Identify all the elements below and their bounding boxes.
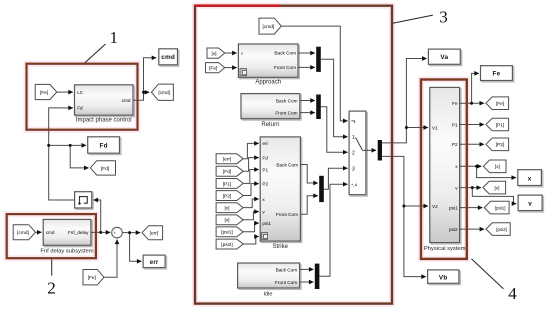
svg-text:Return: Return <box>261 122 279 128</box>
svg-text:2: 2 <box>352 150 355 156</box>
svg-text:psi2: psi2 <box>449 227 458 232</box>
svg-text:LC: LC <box>77 90 84 95</box>
wire psi1 output to goto <box>460 207 483 209</box>
svg-text:Back Com: Back Com <box>276 267 298 272</box>
subsystem Approach <box>238 44 299 86</box>
demux bar <box>378 140 382 161</box>
svg-text:err: err <box>262 141 268 146</box>
svg-text:Back Com: Back Com <box>276 162 298 167</box>
wire [cmd] to switch control input <box>281 26 347 121</box>
wire idle front com to mux <box>300 281 314 283</box>
svg-text:[Fe]: [Fe] <box>88 275 96 281</box>
svg-text:[P1]: [P1] <box>223 181 232 187</box>
svg-text:Va: Va <box>440 54 448 61</box>
memory block M1 <box>75 192 94 210</box>
svg-text:Back Com: Back Com <box>274 51 296 56</box>
mux idle <box>315 264 320 289</box>
svg-text:2: 2 <box>47 278 56 297</box>
svg-text:Fnf_delay: Fnf_delay <box>68 230 89 235</box>
junction Fd net B <box>69 144 72 147</box>
svg-text:[x]: [x] <box>224 206 229 212</box>
wire sum output to goto [err] <box>122 232 140 234</box>
from tag [psi1] (strike input) <box>216 227 243 237</box>
display block cmd <box>159 49 179 66</box>
from tag [Fe] (error feedback) <box>83 270 104 285</box>
wire [Fe] to approach <box>225 67 237 69</box>
wire memory output to Fd net <box>49 145 86 200</box>
wire v output to goto <box>460 187 481 189</box>
svg-text:Fe: Fe <box>452 101 458 106</box>
annotation box glow 2 <box>7 214 96 258</box>
svg-text:[Fe]: [Fe] <box>209 66 217 72</box>
annotation label 1 <box>83 28 118 64</box>
wire idle back com to mux <box>300 268 314 270</box>
svg-text:cmd: cmd <box>46 230 55 235</box>
annotation box glow 1 <box>27 64 138 130</box>
wire branch V2 input <box>404 205 428 207</box>
wire cmd output to junction <box>133 58 156 101</box>
wire [psi2] to strike bottom port <box>243 237 259 245</box>
mux strike <box>319 176 324 202</box>
svg-text:[P2]: [P2] <box>496 142 505 148</box>
svg-text:Back Com: Back Com <box>276 98 298 103</box>
annotation box 2 <box>7 214 96 258</box>
subsystem Physical system <box>424 87 466 251</box>
svg-text:Strike: Strike <box>273 244 289 250</box>
goto tag [psi1] <box>484 201 509 214</box>
junction V2 <box>402 205 405 208</box>
wire demux V1 to physical system and Va <box>382 59 427 143</box>
svg-text:V1: V1 <box>432 125 438 130</box>
junction Fd net A <box>47 144 50 147</box>
svg-text:3: 3 <box>352 166 355 172</box>
goto tag [cmd] (top left) <box>151 84 173 100</box>
svg-text:Fd: Fd <box>99 143 107 150</box>
wire approach mux to switch input 1 <box>321 59 348 136</box>
wire P1 output to goto <box>460 124 484 126</box>
from tag [x] (strike input) <box>216 203 243 213</box>
goto tag [P1] <box>486 118 509 131</box>
goto tag [Fe] (right) <box>486 97 509 110</box>
display block Va <box>428 49 461 66</box>
svg-text:[Fd]: [Fd] <box>223 169 231 175</box>
svg-text:[cmd]: [cmd] <box>158 90 170 96</box>
svg-text:err: err <box>150 260 159 266</box>
svg-text:[psi2]: [psi2] <box>496 227 507 232</box>
wire [cmd] to Fnf delay <box>36 231 42 233</box>
from tag [x] (approach input) <box>207 48 225 58</box>
svg-text:[P1]: [P1] <box>496 122 505 128</box>
goto tag [Fd] <box>90 161 115 175</box>
wire approach front com to mux <box>298 66 315 68</box>
wire [Fe] to LC input <box>57 91 73 93</box>
from tag [P1] (strike input) <box>216 179 243 189</box>
svg-text:[Fe]: [Fe] <box>40 90 48 96</box>
wire Fe output to goto <box>460 102 484 104</box>
wire strike mux to switch input 3 <box>324 168 348 189</box>
annotation box 1 <box>27 64 138 130</box>
wire [P2] to strike P2 <box>243 184 259 196</box>
annotation box 4 <box>421 80 467 259</box>
svg-text:[err]: [err] <box>150 231 159 237</box>
wire [psi1] to strike psi1 <box>243 223 259 232</box>
svg-text:P1: P1 <box>262 167 268 172</box>
svg-text:P1: P1 <box>452 122 458 127</box>
wire [v] to strike v <box>243 212 259 220</box>
display block Fd <box>88 137 121 155</box>
svg-text:[psi1]: [psi1] <box>495 206 506 211</box>
multiport switch SW1 <box>349 111 367 196</box>
display block err <box>143 255 166 269</box>
wire return back com to mux <box>300 100 315 102</box>
goto tag [x] (right) <box>483 160 506 173</box>
svg-text:[P2]: [P2] <box>223 193 232 199</box>
svg-text:Fd: Fd <box>77 106 83 111</box>
wire branch to x display <box>477 166 516 177</box>
junction x <box>475 165 478 168</box>
from tag [cmd] (delay input) <box>13 225 35 240</box>
display block v <box>518 195 543 212</box>
wire branch to Fe display <box>472 73 479 103</box>
goto tag [err] <box>142 226 163 240</box>
svg-text:Physical system: Physical system <box>424 246 466 252</box>
junction memory tap <box>99 231 102 234</box>
from tag [P2] (strike input) <box>216 191 243 201</box>
wire [x] to strike x <box>243 199 259 208</box>
svg-text:[psi2]: [psi2] <box>221 242 232 248</box>
wire memory input from Fnf output junction <box>94 200 101 232</box>
svg-text:[Fe]: [Fe] <box>496 101 504 107</box>
svg-text:psi1: psi1 <box>449 206 458 211</box>
wire P2 output to goto <box>460 143 484 145</box>
wire return front com to mux <box>300 112 315 114</box>
svg-text:[v]: [v] <box>494 186 499 192</box>
wire branch V1 input <box>406 127 428 129</box>
svg-text:v: v <box>528 201 532 208</box>
from tag [Fd] (strike input) <box>216 166 243 176</box>
wire switch output to demux <box>366 149 376 151</box>
sum junction S1 <box>112 227 123 239</box>
svg-text:*,4: *,4 <box>351 182 357 187</box>
from tag [psi2] (strike input) <box>216 239 243 249</box>
subsystem U1 Impact phase control <box>75 85 135 124</box>
from tag [v] (strike input) <box>216 215 243 225</box>
subsystem U2 Fnf delay subsystem <box>40 219 93 254</box>
from tag [err] (strike input) <box>216 154 243 164</box>
wire return mux to switch input 2 <box>321 107 348 153</box>
wire demux V2 to Vb <box>382 156 426 276</box>
wire strike front com to mux <box>300 196 317 215</box>
display block x <box>518 170 543 187</box>
subsystem Strike <box>260 137 302 250</box>
svg-text:Impact phase control: Impact phase control <box>76 118 132 124</box>
wire [x] to approach <box>225 52 237 54</box>
svg-text:[err]: [err] <box>223 157 232 163</box>
annotation box 3 red top segment <box>194 4 280 7</box>
svg-text:[cmd]: [cmd] <box>263 24 275 30</box>
svg-text:Fe: Fe <box>492 71 500 78</box>
junction v <box>471 186 474 189</box>
svg-text:Front Com: Front Com <box>274 65 296 70</box>
svg-text:Approach: Approach <box>255 80 281 86</box>
wire psi2 output to goto <box>460 228 485 230</box>
annotation label 2 <box>47 259 56 297</box>
wire branch to err display <box>130 233 142 262</box>
svg-text:x: x <box>528 176 532 183</box>
svg-text:Front Com: Front Com <box>275 280 297 285</box>
from tag [Fe] (impact control input) <box>35 84 57 99</box>
display block Vb <box>428 270 461 285</box>
svg-text:Fnf delay subsystem: Fnf delay subsystem <box>40 248 93 254</box>
svg-text:cmd: cmd <box>122 98 131 103</box>
junction err net <box>128 231 131 234</box>
from tag [Fe] (approach input) <box>206 63 225 73</box>
svg-text:Front Com: Front Com <box>276 212 298 217</box>
annotation label 4 <box>472 259 518 303</box>
svg-text:1: 1 <box>352 135 355 141</box>
mux approach <box>316 47 321 72</box>
wire Fnf output to sum <box>91 231 110 233</box>
goto tag [psi2] <box>486 223 510 236</box>
wire idle mux to switch input 4 <box>319 184 347 276</box>
svg-text:+: + <box>113 231 116 236</box>
mux return <box>316 95 321 120</box>
annotation box 3 <box>195 6 392 304</box>
svg-text:Vb: Vb <box>439 274 448 281</box>
wire Fd net down to goto [Fd] <box>70 145 88 168</box>
svg-text:1: 1 <box>110 28 119 47</box>
svg-text:P2: P2 <box>262 181 268 186</box>
wire [P1] to strike P1 <box>243 170 259 184</box>
svg-text:4: 4 <box>508 284 517 303</box>
wire [err] to strike err <box>243 143 259 158</box>
svg-text:x: x <box>241 51 243 56</box>
svg-text:psi1: psi1 <box>262 221 271 226</box>
svg-text:[v]: [v] <box>224 218 229 224</box>
svg-text:[x]: [x] <box>495 164 500 170</box>
wire [Fe] to sum bottom <box>104 240 117 278</box>
wire [Fd] to strike Fd <box>243 158 259 172</box>
subsystem Return <box>241 94 301 128</box>
svg-text:V2: V2 <box>432 204 438 209</box>
annotation label 3 <box>393 8 448 27</box>
svg-text:Idle: Idle <box>263 292 272 298</box>
svg-text:[x]: [x] <box>211 51 216 57</box>
svg-text:cmd: cmd <box>161 54 175 61</box>
junction V1 <box>405 126 408 129</box>
wire branch to goto [cmd] <box>144 91 150 93</box>
svg-text:P2: P2 <box>452 142 458 147</box>
display block Fe <box>481 66 514 82</box>
from tag [cmd] (switch control) <box>259 18 281 34</box>
junction Fe <box>470 102 473 105</box>
wire Fd net up to Fd input <box>49 108 73 145</box>
svg-text:Front Com: Front Com <box>275 110 297 115</box>
junction cmd <box>142 91 145 94</box>
wire approach back com to mux <box>298 52 315 54</box>
wire x output to goto <box>460 165 482 167</box>
wire branch to v display <box>472 188 516 204</box>
svg-text:3: 3 <box>439 8 448 27</box>
annotation box glow 4 <box>421 80 467 259</box>
svg-text:[cmd]: [cmd] <box>17 230 29 236</box>
svg-text:Fd: Fd <box>262 155 268 160</box>
svg-text:[Fd]: [Fd] <box>101 166 109 172</box>
svg-text:[psi1]: [psi1] <box>221 230 232 236</box>
goto tag [P2] <box>486 138 509 151</box>
annotation box glow 3 <box>195 6 392 304</box>
goto tag [v] (right) <box>483 181 506 194</box>
subsystem Idle <box>238 263 301 298</box>
wire strike back com to mux <box>300 165 317 184</box>
